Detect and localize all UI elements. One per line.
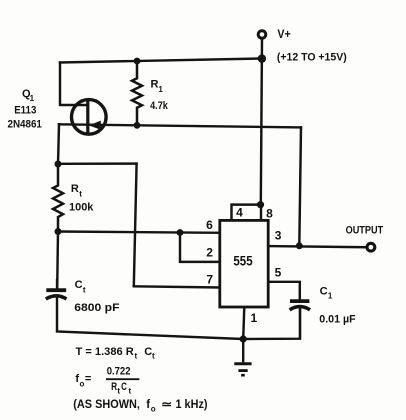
wire pin 6 xyxy=(58,232,220,233)
svg-text:OUTPUT: OUTPUT xyxy=(346,224,384,236)
transistor Q1 (JFET) xyxy=(72,100,107,135)
node V+ at pin 8 loop xyxy=(257,201,264,208)
wire left rail to Ct xyxy=(56,232,59,289)
wire pin7 riser (vertical) xyxy=(134,164,137,287)
svg-text:2: 2 xyxy=(206,246,213,260)
wire 4-8 jumper loop xyxy=(232,205,262,221)
svg-text:o: o xyxy=(80,379,85,388)
svg-text:R: R xyxy=(71,183,79,195)
svg-text:t: t xyxy=(135,351,138,360)
svg-text:R: R xyxy=(111,381,117,393)
svg-text:t: t xyxy=(79,189,82,198)
wire V+ rail xyxy=(261,39,262,204)
svg-text:1: 1 xyxy=(158,85,163,94)
resistor R3 4.7k xyxy=(132,61,142,125)
wire pin 1 stub xyxy=(243,307,244,339)
wire pin 3 to output terminal xyxy=(268,246,366,247)
svg-text:E113: E113 xyxy=(14,105,36,117)
node R3 bottom xyxy=(134,122,141,129)
svg-text:(+12 TO +15V): (+12 TO +15V) xyxy=(277,51,347,63)
node R1 bottom / pin6 xyxy=(55,228,62,235)
svg-text:t: t xyxy=(83,285,86,294)
node pin6/pin2 branch xyxy=(177,229,184,236)
IC U1 555 xyxy=(220,220,268,307)
svg-text:t: t xyxy=(129,386,132,395)
svg-text:8: 8 xyxy=(266,206,273,220)
svg-text:o: o xyxy=(151,405,156,414)
svg-text:7: 7 xyxy=(206,272,213,286)
svg-text:1: 1 xyxy=(30,94,35,103)
svg-text:2N4861: 2N4861 xyxy=(8,119,42,131)
node V+ top junction xyxy=(258,54,266,62)
svg-text:C: C xyxy=(75,279,83,291)
wire bottom rail xyxy=(57,298,300,340)
capacitor Ct 6800pF xyxy=(46,279,67,299)
svg-text:100k: 100k xyxy=(69,201,94,213)
svg-text:R: R xyxy=(151,79,159,91)
resistor R1 100k xyxy=(53,164,63,232)
terminal OUTPUT xyxy=(367,243,375,251)
svg-text:t: t xyxy=(152,351,155,360)
ground xyxy=(234,339,251,375)
svg-text:1: 1 xyxy=(328,292,333,301)
svg-text:1 kHz): 1 kHz) xyxy=(176,399,208,411)
svg-text:=: = xyxy=(85,373,91,385)
wire gate branch from top rail xyxy=(60,63,87,106)
svg-text:6800 pF: 6800 pF xyxy=(74,302,120,314)
node R1 top xyxy=(55,161,62,168)
svg-text:1: 1 xyxy=(251,311,258,325)
svg-text:5: 5 xyxy=(275,266,282,280)
node ground junction xyxy=(240,335,247,342)
svg-text:V+: V+ xyxy=(277,29,291,41)
wire pin 7 xyxy=(134,286,220,287)
capacitor C1 0.01uF xyxy=(290,301,310,339)
svg-text:f: f xyxy=(146,399,150,411)
svg-text:0.722: 0.722 xyxy=(107,365,131,377)
terminal V+ xyxy=(258,31,266,39)
svg-text:4.7k: 4.7k xyxy=(150,100,169,112)
svg-text:t: t xyxy=(117,386,120,395)
wire drain-source run xyxy=(59,124,301,127)
svg-text:6: 6 xyxy=(206,218,213,232)
svg-text:C: C xyxy=(320,285,328,297)
svg-text:T = 1.386 R: T = 1.386 R xyxy=(76,346,134,358)
svg-text:C: C xyxy=(121,381,127,393)
wire R1-top to pin7 riser (horizontal) xyxy=(58,162,137,165)
wire pin 2 branch xyxy=(180,232,220,262)
svg-text:(AS SHOWN,: (AS SHOWN, xyxy=(73,399,140,411)
node pin3 junction xyxy=(296,242,303,249)
wire top rail xyxy=(60,59,262,63)
wire feedback riser to pin 3 xyxy=(299,127,301,245)
svg-text:4: 4 xyxy=(236,205,243,219)
svg-text:0.01 µF: 0.01 µF xyxy=(319,313,356,325)
svg-text:≃: ≃ xyxy=(161,399,172,411)
svg-text:3: 3 xyxy=(275,228,282,242)
svg-text:C: C xyxy=(144,346,152,358)
wire left rail upper segment xyxy=(58,124,59,164)
svg-text:555: 555 xyxy=(233,253,252,269)
wire pin 5 branch xyxy=(268,282,300,299)
node R3 top xyxy=(134,58,141,65)
